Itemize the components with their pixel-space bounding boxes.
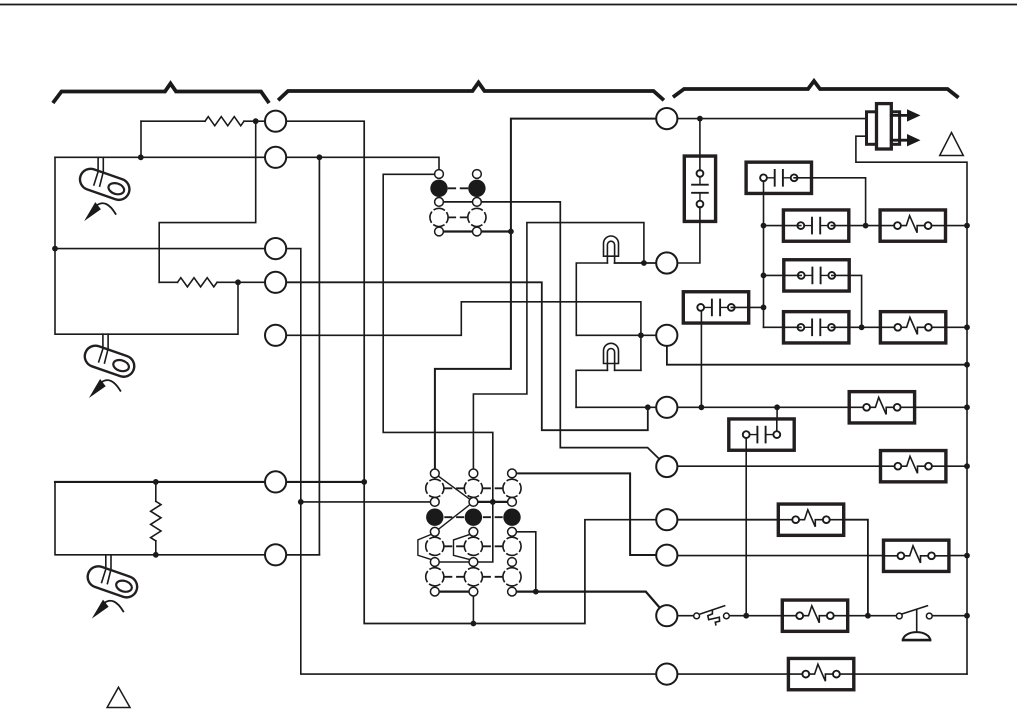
resistor R-top row wire [141,120,265,122]
wire lamp2 left + riser [576,370,607,407]
wire B6 left lead down [700,314,702,407]
wire lamp1 left + riser [576,263,607,335]
wire B6 right [749,306,764,308]
relay1 right column [473,170,482,179]
brace 3 [675,81,958,97]
relay1 dash links [449,188,468,217]
resistor box row 615 [782,600,847,631]
wire B2 left chain vertical [763,181,765,327]
contact box row 275 [784,260,849,291]
relay1 left column [435,170,444,179]
resistor R-mid row wire [159,281,265,283]
wire lamp1 node chain to relay2 col2 [473,223,644,469]
wire row 519 to switch row [677,520,868,616]
resistor R-low zigzag [151,501,161,541]
wire terminal2 branch down to terminal7 [286,157,319,555]
pressure actuated switch [896,606,932,640]
resistor box row 674 [788,658,853,689]
wire terminal4 long run [286,282,648,430]
resistor box row 519 [778,504,843,535]
relay2 col3 stack [508,469,517,478]
wire B5 left lead down [745,438,747,616]
contact box row 327 [784,312,849,343]
wire terminal2R to pressure box [677,221,700,263]
wire lamp2 right [615,369,641,371]
mercury bulb 1 [77,157,132,221]
pressure switch box B1 (vertical) [684,156,715,221]
wire lamp1 right to terminal2R [615,262,657,264]
triangle marker bottom left [107,687,130,707]
wire terminal3 long bottom run [286,249,656,674]
relay2 col1 bypass arm [418,534,431,559]
top page border line [0,4,1017,6]
wire mercury bulb1 row [55,156,265,158]
wire B2 right to row 225 [794,178,866,226]
wire row 466 [677,465,967,467]
triangle marker top right [940,133,964,156]
relay2 bottom links + diagonal to terminal8R [439,592,660,608]
wire terminal3 row [55,248,265,250]
mercury bulb 3 [85,555,140,619]
resistor box row 466 [881,451,946,482]
wire relay1 mid row to terminal5R [443,202,659,459]
wire lower-left loop [55,482,265,555]
relay2 col3 arm to bottom row [516,532,535,592]
relay2 s3 link [439,561,469,563]
relay2 mid link row 502 [478,501,508,503]
wire terminal6 row [55,481,364,483]
wire riser R-top left [140,121,142,157]
resistor box row 327 [880,312,945,343]
contact box B6 [683,292,748,323]
wire row 407 right part [677,406,967,408]
wire terminal1R to connector [677,118,866,120]
wire row 335 [576,334,656,336]
relay2 col2 bypass arm [454,534,470,559]
wire row 275 [764,275,862,327]
wire R-mid riser chain [159,121,256,282]
relay2 dash links [445,488,502,577]
contact box B5 [729,419,794,450]
wire relay1 left-top side feed [383,174,493,562]
wire terminal3R bottom lead to bus [667,346,967,365]
wire bottom row [677,673,967,675]
wire terminal5 jog run [286,302,641,371]
resistor box row 556 [884,540,949,571]
wire left outer loop [55,157,238,334]
relay2 col1 stack [430,469,439,478]
flow switch [694,606,730,625]
contact box B3 [783,210,848,241]
resistor box row 407 [849,392,914,423]
wire terminal1 long run down to bottom bus [286,121,656,623]
wire to relay2 col1 [301,501,431,503]
contact box B2 [746,162,811,193]
lamp2 [604,343,619,370]
relay2 X diagonals [438,476,470,529]
relay2 col2 stack [469,469,478,478]
wire terminal2 to relay1 [286,157,439,169]
lamp1 [604,236,619,263]
wire pressure box top lead [699,119,701,157]
wire switch row segments [677,615,967,617]
wire relay2 col3 top to terminal7R [516,473,656,555]
resistor box B4 [880,210,945,241]
resistor R-mid zigzag [178,278,218,287]
brace 2 [280,83,663,100]
brace 1 [54,84,268,102]
resistor R-low vertical leads [155,482,157,555]
mercury bulb 2 [82,334,137,398]
wire terminal7 to riser [286,554,319,556]
relay2 col2 bottom lead [472,596,474,624]
wire row 327 [764,326,968,328]
wire row 556 [677,555,967,557]
wire B5 right lead up [776,407,778,431]
wire row 407 left part [576,406,656,408]
wire relay1 bottom row [443,230,511,232]
wire terminal1R to relay1 bottom and relay2 col1 [435,119,656,469]
resistor R-top zigzag [205,117,244,126]
wire row 225 [764,225,968,227]
wire connector return + right bus [856,136,967,674]
